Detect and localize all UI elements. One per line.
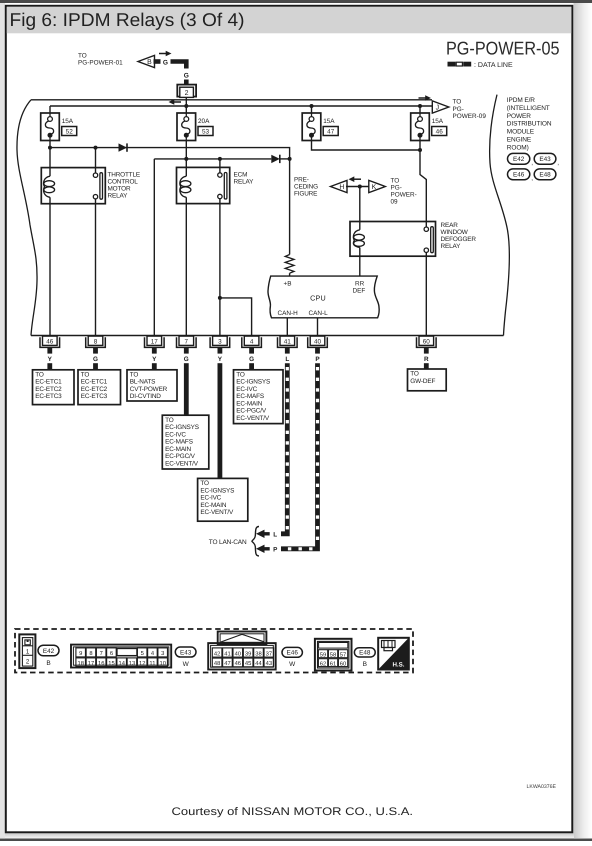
svg-text:E43: E43 [180,649,192,656]
svg-text:L: L [273,532,277,539]
svg-text:2: 2 [185,90,189,97]
junction: fuse 46/47 outputs [418,148,422,152]
svg-text:E48: E48 [539,172,551,179]
IPDM E/R module boundary bottom line [31,335,504,337]
throttle relay contact [93,173,102,200]
rail B wire [154,158,271,160]
relay: ECM relay box [177,167,230,203]
svg-text:TO: TO [200,480,209,487]
throttle relay coil [44,176,55,197]
svg-text:IPDM E/R: IPDM E/R [507,97,535,104]
svg-text:46: 46 [46,338,54,345]
triangle J to PG-POWER-09 [432,101,449,113]
svg-text:EC-IGNSYS: EC-IGNSYS [165,424,199,431]
arrow (direction) right, near triangle J [419,95,432,101]
pin 7 (IPDM connector terminal) [177,336,197,347]
diode D1 on rail A [119,143,128,151]
svg-text:WINDOW: WINDOW [441,229,469,236]
junction: throttle relay contact tap [94,146,98,150]
wire color letters under pins [48,356,429,363]
svg-text:16: 16 [98,660,104,667]
svg-text:45: 45 [245,661,251,667]
svg-text:5: 5 [141,651,144,657]
thick wire stubs below pin boxes [47,347,428,353]
oval label E48 [354,648,375,657]
relay: rear window defogger relay box [350,222,436,257]
svg-text:E43: E43 [539,156,551,163]
svg-text:B: B [147,59,152,66]
oval label E42 [38,645,59,656]
svg-text:EC-IVC: EC-IVC [165,431,186,438]
svg-text:Courtesy of NISSAN MOTOR CO.,: Courtesy of NISSAN MOTOR CO., U.S.A. [172,806,414,818]
svg-text:EC-ETC1: EC-ETC1 [35,379,62,386]
label box TO EC-ETC (pin 46) [33,370,75,405]
svg-text:PG-: PG- [453,106,464,113]
pin 4 (IPDM connector terminal) [242,336,262,347]
wire throttle relay coil bottom to pin 46 [49,197,51,335]
svg-text:PG-POWER-05: PG-POWER-05 [446,38,560,59]
svg-text:61: 61 [330,660,336,667]
svg-text:13: 13 [129,660,135,667]
label box TO EC-IGNSYS (pin 3) [198,478,248,521]
svg-text:TO: TO [35,371,44,378]
svg-text:47: 47 [327,129,335,136]
svg-text:RELAY: RELAY [234,178,255,185]
connector E43 face view [71,645,171,668]
svg-text:46: 46 [436,129,444,136]
svg-text:: DATA LINE: : DATA LINE [474,62,513,69]
wire ECM relay coil bottom to pin 7 [185,197,187,335]
pin 46 (IPDM connector terminal) [40,336,60,347]
svg-text:W: W [183,661,190,668]
wire between triangles H and K [346,186,370,188]
svg-text:11: 11 [149,661,155,667]
wire defogger contact bottom to pin 60 [425,252,427,335]
svg-text:47: 47 [224,661,230,667]
svg-text:EC-VENT/V: EC-VENT/V [236,415,270,422]
svg-text:PG-POWER-01: PG-POWER-01 [78,60,123,67]
svg-text:P: P [273,547,278,554]
label box TO BL-NATS (pin 17) [127,370,177,401]
svg-text:POWER-09: POWER-09 [453,113,487,120]
svg-text:40: 40 [314,338,322,345]
svg-text:7: 7 [100,651,103,657]
svg-text:CONTROL: CONTROL [108,178,139,185]
junction: fuse 46 column [418,104,422,108]
svg-text:W: W [289,661,296,668]
junction: connector2/fuse53 column [184,104,188,108]
rail B wire after diode to +B node [280,158,290,160]
svg-text:G: G [93,356,98,363]
wire branch to pin 4 [220,298,252,336]
svg-text:P: P [315,356,320,363]
svg-text:TO: TO [391,177,400,184]
svg-text:E46: E46 [287,650,299,657]
svg-text:14: 14 [118,661,125,667]
wire ECM relay contact top pin [219,159,221,173]
arrow to LAN-CAN (L) [256,530,270,538]
IPDM E/R module boundary left curve [17,100,37,336]
svg-text:LKWA0376E: LKWA0376E [526,784,556,790]
wire throttle relay contact bottom to pin 8 [95,199,97,336]
connector detail panel (dashed) [15,629,413,673]
arrow (direction) left above H-K wire [349,176,362,182]
svg-text:E48: E48 [359,650,371,657]
junction: +B feed node [288,157,292,161]
arrow (direction) left, below connector 2 [169,99,182,105]
svg-text:CAN-L: CAN-L [309,310,329,317]
svg-text:EC-ETC3: EC-ETC3 [35,393,62,400]
CPU box [268,276,379,318]
junction: ECM contact node [218,157,222,161]
wire ECM relay coil top pin [185,159,187,176]
junction: throttle relay coil tap [48,146,52,150]
svg-text:ROOM): ROOM) [507,144,529,151]
callout text TO PG-POWER-09 (middle) [391,177,417,205]
svg-text:FIGURE: FIGURE [294,191,317,198]
svg-text:15: 15 [108,661,114,667]
wire to defogger contact with jog [420,150,426,227]
svg-text:59: 59 [320,651,326,658]
label box TO EC-ETC (pin 8) [78,370,121,405]
defogger relay coil [353,230,364,248]
relay: throttle control motor relay box [41,168,105,204]
fuse 46 (15A) defogger feed 2 [411,113,447,141]
svg-text:REAR: REAR [441,222,459,229]
svg-text:52: 52 [66,129,74,136]
rail A wire (fuse 52 output) east to corner, down to resistor [50,148,290,255]
svg-text:41: 41 [224,651,230,657]
svg-text:EC-ETC1: EC-ETC1 [81,379,108,386]
svg-text:(INTELLIGENT: (INTELLIGENT [507,105,550,112]
svg-text:3: 3 [161,650,164,657]
wire ECM relay contact bottom to pin 3 [219,199,221,336]
svg-text:EC-IGNSYS: EC-IGNSYS [200,487,234,494]
wire pin 7 long run to EC-IGNSYS box [184,363,189,415]
svg-text:DEF: DEF [353,287,366,294]
connector ovals E42 E43 E46 E48 [508,153,560,182]
svg-text:RELAY: RELAY [108,192,129,199]
label box TO EC-IGNSYS (pin 4) [234,370,284,424]
pin 40 (IPDM connector terminal) [308,336,328,347]
svg-text:K: K [372,184,377,191]
svg-text:RR: RR [355,280,365,287]
wire CAN-H from CPU to pin 41 [286,318,288,336]
svg-text:G: G [163,59,168,66]
svg-text:8: 8 [89,650,92,657]
svg-text:EC-PGC/V: EC-PGC/V [236,408,267,415]
diode D2 on rail B [271,155,280,163]
junction: fuse 47 column [310,104,314,108]
triangle H (preceding figure) [331,180,348,192]
brace for LAN-CAN arrows [252,527,259,556]
svg-text:42: 42 [214,650,220,657]
svg-text:EC-MAIN: EC-MAIN [165,446,191,453]
svg-text:EC-ETC3: EC-ETC3 [81,393,108,400]
svg-text:TO: TO [410,371,419,378]
svg-text:17: 17 [88,661,94,667]
svg-text:TO: TO [130,371,139,378]
svg-text:CAN-H: CAN-H [278,310,299,317]
pin 41 (IPDM connector terminal) [278,336,298,347]
svg-text:DISTRIBUTION: DISTRIBUTION [507,121,552,128]
svg-text:ENGINE: ENGINE [507,137,532,144]
svg-text:10: 10 [159,660,165,667]
wire pin 46 to EC-ETC box [47,363,52,370]
oval label E46 [282,647,302,657]
junction: defogger coil feed [358,185,362,189]
svg-text:B: B [363,661,367,668]
svg-text:EC-MAIN: EC-MAIN [236,400,262,407]
svg-text:H: H [339,184,344,191]
wire pin 3 long run to EC-IGNSYS box [218,363,223,478]
arrow to LAN-CAN (P) [256,545,270,553]
label: REAR WINDOW DEFOGGER RELAY [441,222,477,250]
wire fuse 47 top stub [311,106,313,113]
wire fuse 47 output [312,141,421,151]
svg-text:18: 18 [77,660,83,667]
svg-text:E42: E42 [513,156,525,163]
svg-text:15A: 15A [432,118,444,125]
svg-text:38: 38 [255,650,261,657]
oval label E43 [175,647,196,657]
svg-text:6: 6 [110,650,113,657]
svg-text:2: 2 [26,659,30,666]
svg-text:R: R [424,356,429,363]
svg-text:12: 12 [139,660,145,667]
connector E42 face view [19,634,35,668]
ECM relay contact [218,173,227,200]
IPDM E/R module boundary top line [31,99,432,101]
wire defogger coil bottom to CPU RR DEF [359,248,361,277]
header bar [7,7,572,34]
wire defogger coil top pin [359,187,361,230]
bus wire from connector 2 across module [50,105,434,107]
svg-text:Fig 6: IPDM Relays (3 Of 4): Fig 6: IPDM Relays (3 Of 4) [10,9,245,30]
svg-text:58: 58 [330,651,336,658]
junction: fuse53/ECM coil node [184,157,188,161]
svg-text:43: 43 [266,660,272,667]
fuse 53 (20A) ECM relay feed [177,113,213,141]
label box TO GW-DEF (pin 60) [408,369,447,391]
svg-text:CPU: CPU [310,294,326,303]
svg-text:EC-MAFS: EC-MAFS [165,439,193,446]
wire resistor to CPU +B [289,273,291,276]
svg-text:+B: +B [284,280,292,287]
callout text TO PG-POWER-09 (top right) [453,99,487,121]
svg-text:09: 09 [391,198,399,205]
resistor R (CPU +B feed) [285,255,294,274]
label: ECM RELAY [234,171,255,185]
svg-text:EC-IVC: EC-IVC [236,386,257,393]
svg-text:Y: Y [152,356,157,363]
svg-text:ECM: ECM [234,171,248,178]
callout: TO PG-POWER-01 [78,53,123,67]
svg-text:,: , [531,160,533,167]
wire fuse 53 top stub [185,106,187,113]
harness section indicator H.S. [378,638,409,670]
svg-text:E42: E42 [43,648,55,655]
svg-text:POWER: POWER [507,113,531,120]
svg-text:EC-IGNSYS: EC-IGNSYS [236,379,270,386]
wire CAN-L from CPU to pin 40 [317,318,319,336]
junction: branch to pin 4 [218,296,222,300]
wire G (thick) corner into connector 2 [171,62,187,69]
label box TO EC-IGNSYS (pin 7) [162,415,209,469]
pin 60 (IPDM connector terminal) [417,336,437,347]
pin 17 (IPDM connector terminal) [145,336,165,347]
svg-text:G: G [184,356,189,363]
svg-text:62: 62 [320,660,326,667]
svg-text:17: 17 [151,338,159,345]
svg-text:MOTOR: MOTOR [108,185,131,192]
svg-text:57: 57 [340,652,346,658]
svg-text:8: 8 [94,338,98,345]
svg-text:E46: E46 [513,172,525,179]
svg-text:20A: 20A [198,118,210,125]
svg-text:B: B [46,660,50,667]
svg-text:POWER-: POWER- [391,191,417,198]
triangle K (to PG-POWER-09) [369,180,386,192]
wire G (thick) from triangle B [154,59,161,64]
svg-text:,: , [557,160,559,167]
svg-text:9: 9 [79,650,82,657]
svg-text:Y: Y [48,356,53,363]
svg-text:RELAY: RELAY [441,243,462,250]
connector E48 face view [315,639,352,671]
data line wire L from pin 41 to LAN-CAN [281,363,287,534]
svg-text:CEDING: CEDING [294,184,318,191]
svg-text:37: 37 [266,650,272,657]
svg-text:TO: TO [236,371,245,378]
wire pin 17 to BL-NATS box [152,363,157,370]
svg-text:4: 4 [250,338,254,345]
page background and chrome [0,0,592,3]
fuse 52 (15A) throttle relay feed [41,113,77,141]
svg-text:Y: Y [218,356,223,363]
ECM relay coil [180,176,191,197]
svg-text:G: G [249,356,254,363]
wire fuse 46 output [419,141,421,151]
svg-text:EC-VENT/V: EC-VENT/V [200,509,234,516]
wire rail B west corner down to pin 17 [153,159,155,336]
svg-text:,: , [531,175,533,182]
svg-text:15A: 15A [62,118,74,125]
IPDM E/R module boundary right curve [490,95,510,336]
wire bus corner down into fuse 52 [49,106,51,113]
wire from connector 2 to bus [185,97,187,106]
svg-text:EC-MAIN: EC-MAIN [200,502,226,509]
svg-text:G: G [184,72,189,79]
svg-text:J: J [436,105,439,112]
svg-text:TO: TO [165,417,174,424]
svg-text:EC-IVC: EC-IVC [200,495,221,502]
svg-text:1: 1 [26,648,30,655]
pin 3 (IPDM connector terminal) [210,336,230,347]
svg-text:DI-CVTIND: DI-CVTIND [130,393,161,400]
svg-text:H.S.: H.S. [392,662,404,669]
svg-text:EC-VENT/V: EC-VENT/V [165,460,199,467]
svg-text:41: 41 [284,338,292,345]
connector E46 face view [208,632,276,670]
wire throttle relay coil top pin [49,148,51,177]
wire fuse 53 output down crossing rail A to rail B [185,141,187,159]
label: IPDM E/R (INTELLIGENT POWER DISTRIBUTION MODULE ENGINE ROOM) [507,97,552,151]
wire G stub into connector 2 [184,80,189,86]
svg-text:39: 39 [245,650,251,657]
svg-text:48: 48 [214,660,220,667]
svg-text:DEFOGGER: DEFOGGER [441,236,477,243]
svg-text:TO: TO [78,53,87,60]
svg-text:40: 40 [235,650,241,657]
svg-text:THROTTLE: THROTTLE [108,171,141,178]
svg-text:TO: TO [453,99,462,106]
label: PRECEDING FIGURE [294,177,318,198]
arrow (direction) right, above G wire [159,51,172,57]
svg-text:EC-PGC/V: EC-PGC/V [165,453,196,460]
svg-text:53: 53 [202,129,210,136]
svg-text:CVT-POWER: CVT-POWER [130,386,168,393]
svg-text:EC-MAFS: EC-MAFS [236,393,264,400]
svg-text:3: 3 [218,338,222,345]
pin 8 (IPDM connector terminal) [86,336,106,347]
defogger relay contact [424,227,433,253]
wire pin 4 to EC-IGNSYS box [249,363,254,370]
svg-text:7: 7 [185,338,189,345]
connector 2 (battery feed) [177,85,196,98]
svg-text:TO: TO [81,371,90,378]
svg-text:46: 46 [235,660,241,667]
svg-text:44: 44 [255,661,262,667]
svg-text:60: 60 [340,660,346,667]
svg-text:PRE-: PRE- [294,177,309,184]
wire pin 8 to EC-ETC box [93,363,98,370]
svg-text:15A: 15A [323,118,335,125]
label: THROTTLE CONTROL MOTOR RELAY [108,171,141,199]
svg-text:PG-: PG- [391,184,402,191]
CPU pin labels [278,280,366,317]
svg-text:EC-ETC2: EC-ETC2 [81,386,108,393]
wire fuse 46 top stub [419,106,421,113]
data line wire P from pin 40 to LAN-CAN [281,363,318,549]
wire throttle relay contact top pin [95,148,97,173]
triangle B (to PG-POWER-01) [138,55,155,67]
svg-text:EC-ETC2: EC-ETC2 [35,386,62,393]
svg-text:GW-DEF: GW-DEF [410,378,435,385]
svg-text:L: L [285,356,289,363]
svg-text:60: 60 [423,338,431,345]
fuse 47 (15A) defogger feed [302,113,338,141]
svg-text:MODULE: MODULE [507,129,535,136]
wire pin 60 to GW-DEF box [424,363,429,369]
svg-text:BL-NATS: BL-NATS [130,379,155,386]
data line legend [448,62,513,69]
wire fuse 52 output down to rail A [49,141,51,148]
svg-text:TO LAN-CAN: TO LAN-CAN [209,539,247,546]
